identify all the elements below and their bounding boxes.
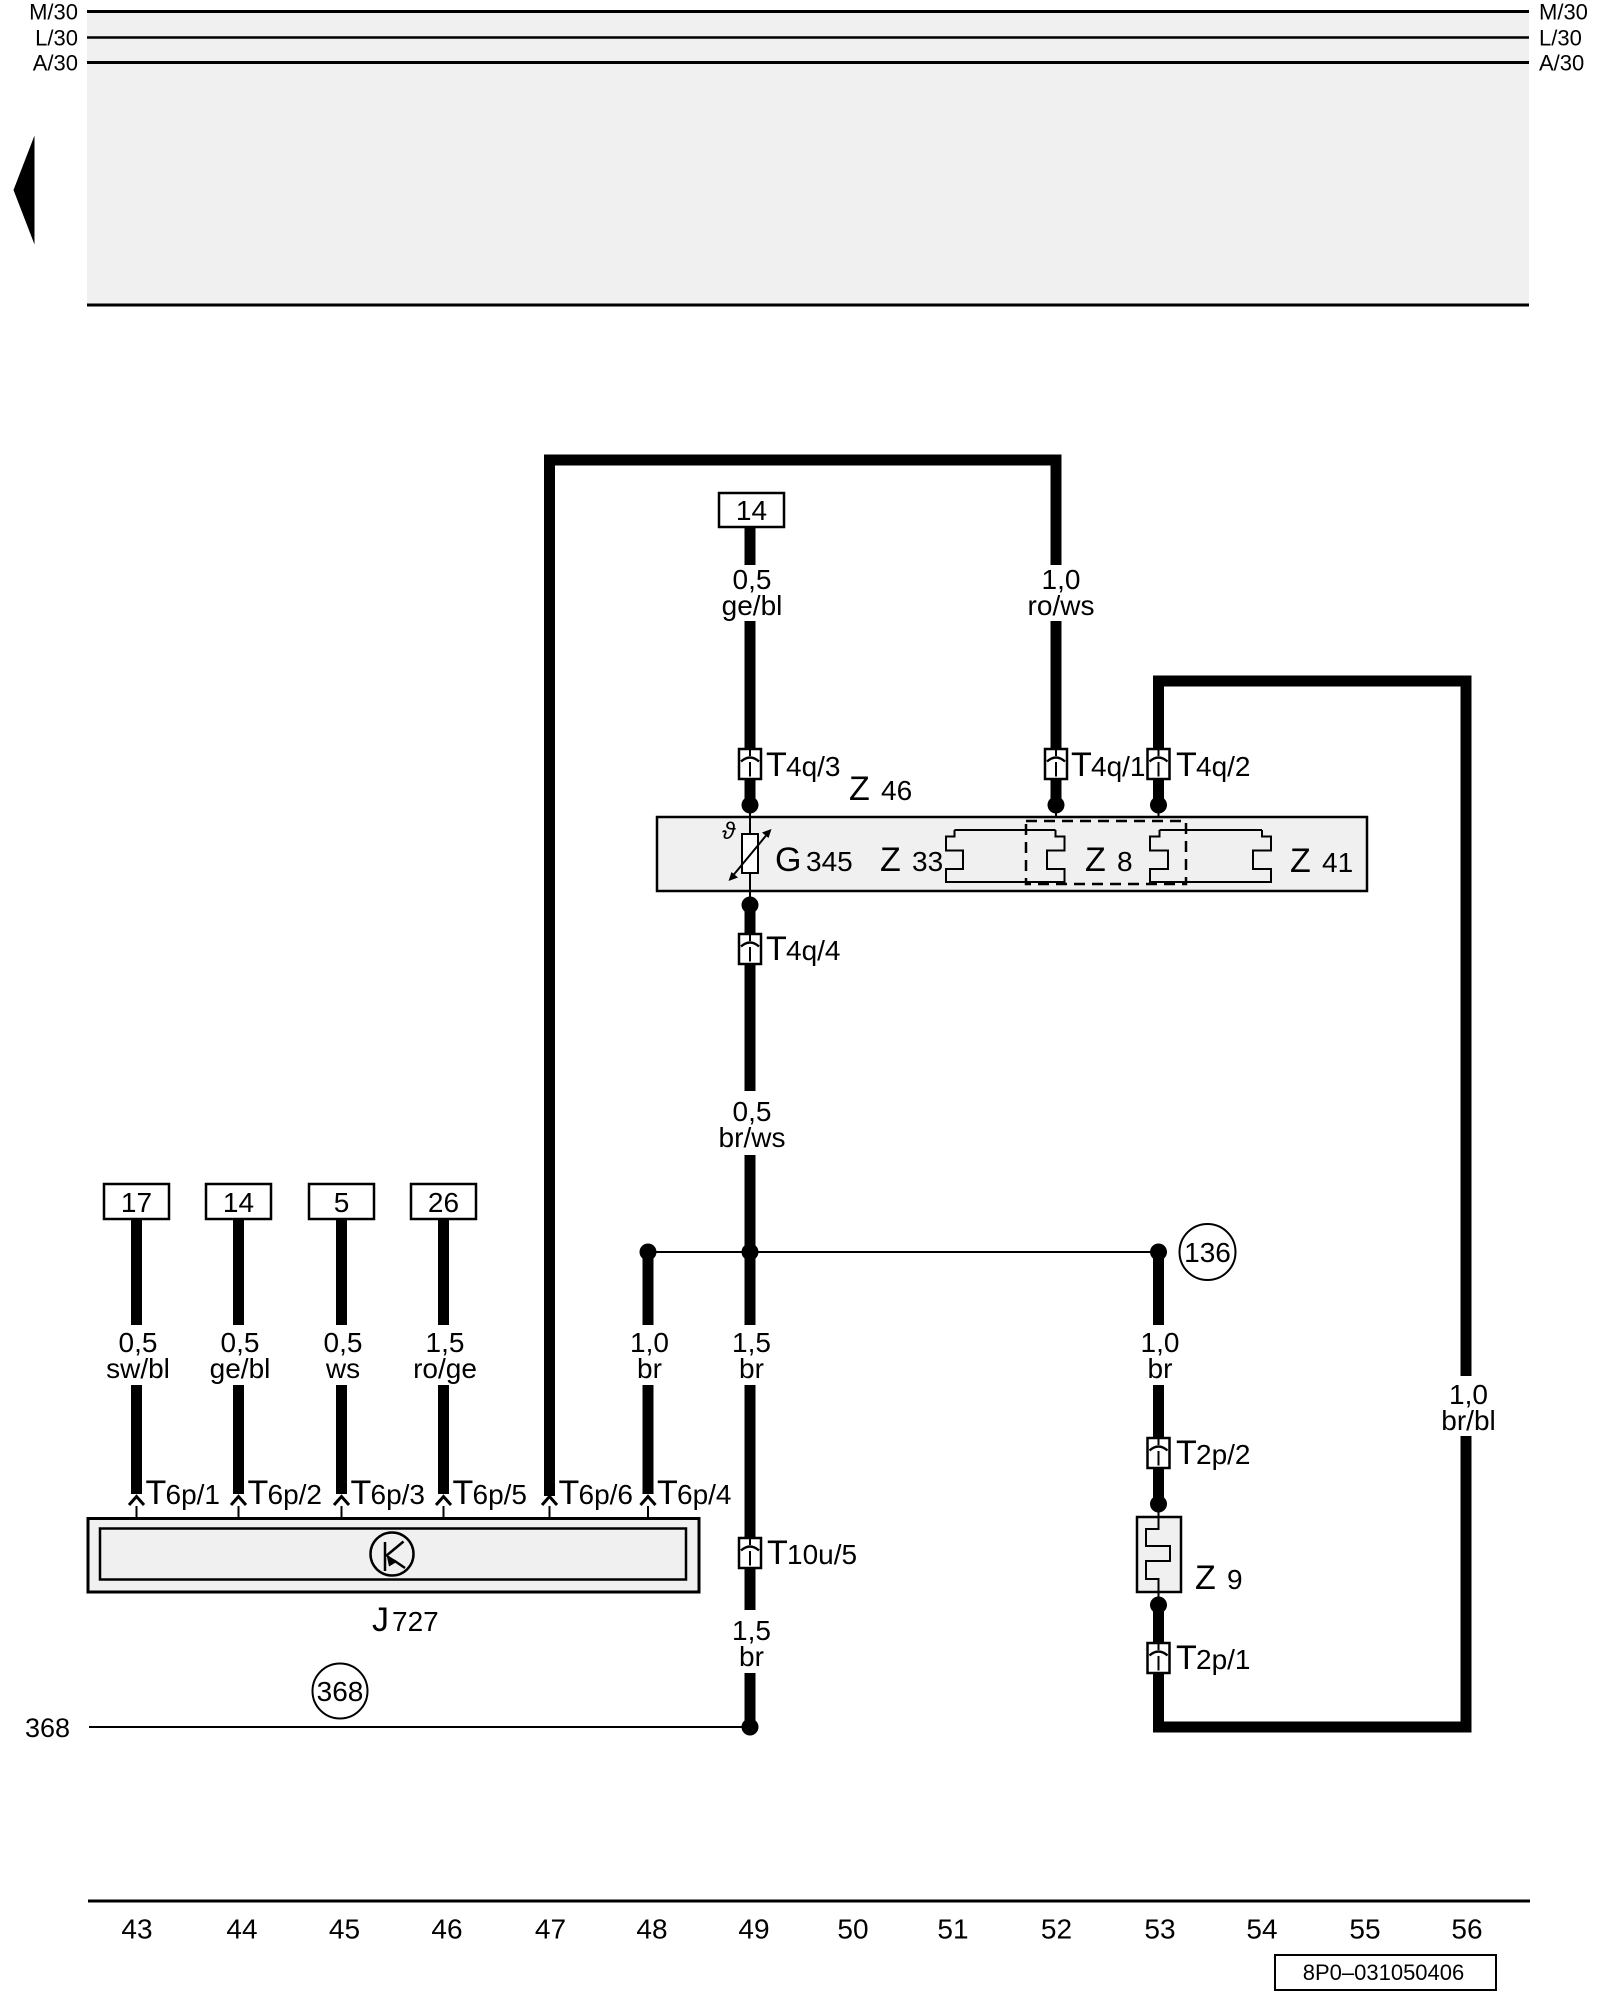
wire label 0,5 ge/bl (lower) [210, 1327, 271, 1384]
wire box5 down [336, 1219, 347, 1325]
pin arrow T6p/4 [641, 1497, 656, 1506]
wire label 1,0 br/bl [1441, 1379, 1495, 1436]
svg-text:sw/bl: sw/bl [106, 1353, 170, 1384]
svg-text:6p/6: 6p/6 [579, 1479, 634, 1510]
wire br to T6p/4 [643, 1385, 654, 1494]
wire T2p/1 down, across bottom and up right side [1159, 1436, 1467, 1727]
junction node br/ws branch [742, 1244, 759, 1261]
wire ro/ge to T6p/5 [438, 1385, 449, 1494]
label G345 [775, 841, 853, 879]
svg-text:5: 5 [334, 1187, 350, 1218]
svg-text:9: 9 [1227, 1564, 1243, 1595]
node above Z46 (Z33 feed) [1048, 797, 1065, 814]
label J727 [372, 1601, 439, 1639]
node below Z9 [1150, 1597, 1167, 1614]
terminal designation box 14 [206, 1184, 271, 1219]
thin lead into heater element Z33 [1055, 805, 1057, 830]
ground wire 368 (thin) [89, 1726, 750, 1728]
terminal designation box 5 [309, 1184, 374, 1219]
svg-text:ro/ge: ro/ge [413, 1353, 477, 1384]
svg-text:26: 26 [428, 1187, 459, 1218]
label T2p/1 [1176, 1639, 1251, 1677]
svg-text:Z: Z [1195, 1559, 1216, 1597]
svg-text:ro/ws: ro/ws [1028, 590, 1095, 621]
wire br/ws to junction [745, 1155, 756, 1252]
connector T4q/3 [739, 749, 761, 779]
svg-text:2p/1: 2p/1 [1196, 1644, 1251, 1675]
page arrow marker [14, 136, 35, 245]
svg-text:45: 45 [329, 1914, 360, 1945]
label Z41 [1290, 842, 1353, 880]
wire ro/ws to T4q/1 [1051, 621, 1062, 749]
label T4q/3 [766, 746, 841, 784]
dashed variant frame around Z8 [1026, 821, 1186, 884]
svg-text:Z: Z [1290, 842, 1311, 880]
svg-text:4q/1: 4q/1 [1091, 751, 1146, 782]
connector T10u/5 [739, 1538, 761, 1568]
ground marker circle 368 [313, 1664, 368, 1719]
label T2p/2 [1176, 1434, 1251, 1472]
svg-text:55: 55 [1349, 1914, 1380, 1945]
svg-text:br/ws: br/ws [719, 1122, 786, 1153]
svg-text:T: T [146, 1474, 167, 1512]
junction node T6p/4 branch [640, 1244, 657, 1261]
wire T4q/3 to node [745, 779, 756, 800]
svg-text:J: J [372, 1601, 389, 1639]
svg-text:Z: Z [1085, 841, 1106, 879]
svg-text:T: T [1176, 1639, 1197, 1677]
svg-text:14: 14 [736, 495, 767, 526]
svg-text:50: 50 [837, 1914, 868, 1945]
wire label 1,5 br (lower) [732, 1615, 771, 1672]
wire label 1,5 ro/ge [413, 1327, 477, 1384]
pin arrow T6p/3 [334, 1497, 349, 1506]
svg-text:8: 8 [1117, 846, 1133, 877]
pin arrow T6p/1 [129, 1497, 144, 1506]
label T6p/4 [657, 1474, 732, 1512]
wire ge/bl to T6p/2 [233, 1385, 244, 1494]
wire node to T2p/1 [1153, 1605, 1164, 1643]
svg-text:br/bl: br/bl [1441, 1405, 1495, 1436]
svg-text:G: G [775, 841, 801, 879]
wire br to T2p/2 [1153, 1385, 1164, 1438]
svg-text:47: 47 [535, 1914, 566, 1945]
wire T4q/2 to node [1153, 779, 1164, 800]
svg-text:Z: Z [849, 770, 870, 808]
svg-text:T: T [1176, 746, 1197, 784]
svg-text:T: T [453, 1474, 474, 1512]
svg-text:56: 56 [1451, 1914, 1482, 1945]
label T4q/2 [1176, 746, 1251, 784]
svg-text:14: 14 [223, 1187, 254, 1218]
svg-text:49: 49 [738, 1914, 769, 1945]
svg-text:17: 17 [121, 1187, 152, 1218]
wire node to T6p/4 [643, 1252, 654, 1325]
wire from box 14 down [745, 527, 756, 565]
J727 internal symbol (circle K) [371, 1533, 414, 1576]
wire box26 down [438, 1219, 449, 1325]
wire sw/bl to T6p/1 [131, 1385, 142, 1494]
svg-text:T: T [559, 1474, 580, 1512]
svg-text:41: 41 [1322, 847, 1353, 878]
svg-text:br: br [637, 1353, 662, 1384]
wire node to right branch down [1153, 1252, 1164, 1325]
svg-text:53: 53 [1144, 1914, 1175, 1945]
sensor G345 (temperature sensor, thermistor) [722, 818, 772, 881]
connector T4q/4 [739, 934, 761, 964]
svg-text:T: T [248, 1474, 269, 1512]
wire ge/bl to T4q/3 [745, 621, 756, 749]
svg-text:368: 368 [25, 1713, 70, 1743]
header panel bottom edge [87, 304, 1529, 307]
svg-text:T: T [1176, 1434, 1197, 1472]
label Z46 [849, 770, 912, 808]
label T6p/1 [146, 1474, 221, 1512]
svg-text:T: T [1071, 746, 1092, 784]
wire ws to T6p/3 [336, 1385, 347, 1494]
label T10u/5 [767, 1534, 857, 1572]
terminal designation box 26 [411, 1184, 476, 1219]
svg-text:br: br [1148, 1353, 1173, 1384]
label T6p/5 [453, 1474, 528, 1512]
ground node 368 [742, 1719, 759, 1736]
label T6p/2 [248, 1474, 323, 1512]
svg-text:6p/2: 6p/2 [268, 1479, 323, 1510]
svg-text:368: 368 [317, 1676, 364, 1707]
svg-text:8P0–031050406: 8P0–031050406 [1303, 1960, 1465, 1985]
top feed wire from T6p/6 column to T4q/1 column [550, 460, 1057, 1496]
connector T2p/2 [1148, 1438, 1170, 1468]
svg-text:T: T [767, 1534, 788, 1572]
wire label 0,5 br/ws [719, 1096, 786, 1153]
svg-text:10u/5: 10u/5 [787, 1539, 857, 1570]
svg-text:4q/3: 4q/3 [786, 751, 841, 782]
svg-text:T: T [766, 930, 787, 968]
current track scale line [88, 1900, 1530, 1903]
connector T2p/1 [1148, 1643, 1170, 1673]
svg-text:T: T [351, 1474, 372, 1512]
label Z33 [880, 841, 943, 879]
node marker 136 [1180, 1224, 1236, 1280]
header gray panel [87, 11, 1529, 305]
connector T4q/1 [1045, 749, 1067, 779]
wire label 0,5 ws [324, 1327, 363, 1384]
thin lead through Z46 top to G345 [749, 805, 751, 834]
svg-text:ϑ: ϑ [722, 818, 736, 845]
svg-text:345: 345 [806, 846, 853, 877]
svg-text:A/30: A/30 [33, 51, 78, 76]
node above Z9 [1150, 1496, 1167, 1513]
svg-text:51: 51 [937, 1914, 968, 1945]
thin lead G345 to node below Z46 [749, 873, 751, 905]
ground rail thin wire to node 136 [648, 1251, 1159, 1253]
label T4q/1 [1071, 746, 1146, 784]
svg-text:52: 52 [1041, 1914, 1072, 1945]
wire node to T4q/4 [745, 905, 756, 934]
svg-text:6p/5: 6p/5 [473, 1479, 528, 1510]
wire junction to label 1,5 br [745, 1252, 756, 1325]
wire br to ground point 368 [745, 1673, 756, 1727]
svg-text:6p/4: 6p/4 [677, 1479, 732, 1510]
pin arrow T6p/2 [231, 1497, 246, 1506]
wire T4q/1 to node [1051, 779, 1062, 800]
wire box14 down [233, 1219, 244, 1325]
wire label 1,0 ro/ws [1028, 564, 1095, 621]
terminal designation box 14 (top) [719, 493, 784, 527]
svg-text:M/30: M/30 [29, 0, 78, 25]
svg-text:br: br [739, 1641, 764, 1672]
svg-text:A/30: A/30 [1539, 51, 1584, 76]
svg-text:L/30: L/30 [1539, 26, 1582, 51]
label T6p/3 [351, 1474, 426, 1512]
svg-text:L/30: L/30 [35, 26, 78, 51]
svg-text:6p/1: 6p/1 [166, 1479, 221, 1510]
node above Z46 (G345 feed) [742, 797, 759, 814]
bus line L/30 [87, 36, 1529, 39]
wire label 1,5 br [732, 1327, 771, 1384]
wire T2p/2 to node [1153, 1468, 1164, 1500]
bus line M/30 [87, 10, 1529, 13]
diagram number plate [1275, 1955, 1496, 1990]
wire box17 down [131, 1219, 142, 1325]
svg-text:ge/bl: ge/bl [722, 590, 783, 621]
right loop wire: T4q/2 up, across and down right side [1159, 681, 1467, 1376]
label Z8 [1085, 841, 1133, 879]
junction node right branch [1150, 1244, 1167, 1261]
svg-text:43: 43 [121, 1914, 152, 1945]
wire T4q/4 down [745, 964, 756, 1091]
control unit J727 box [88, 1519, 699, 1593]
svg-text:44: 44 [226, 1914, 257, 1945]
wire label 0,5 ge/bl [722, 564, 783, 621]
wire br to T10u/5 [745, 1385, 756, 1538]
heater element Z9 (washer jet heater) [1137, 1504, 1181, 1605]
wire label 1,0 br (T6p/4) [630, 1327, 669, 1384]
bus line A/30 [87, 61, 1529, 64]
svg-text:Z: Z [880, 841, 901, 879]
wire label 0,5 sw/bl [106, 1327, 170, 1384]
svg-text:48: 48 [636, 1914, 667, 1945]
connector T4q/2 [1148, 749, 1170, 779]
svg-text:136: 136 [1184, 1237, 1231, 1268]
svg-text:br: br [739, 1353, 764, 1384]
svg-text:ws: ws [325, 1353, 360, 1384]
wire label 1,0 br (right) [1141, 1327, 1180, 1384]
svg-text:54: 54 [1246, 1914, 1277, 1945]
heater element Z8/Z41 body [1150, 830, 1271, 882]
component box Z46 (washer jet heater assembly) [657, 817, 1367, 891]
svg-text:2p/2: 2p/2 [1196, 1439, 1251, 1470]
thin lead into heater element Z8 [1158, 805, 1160, 830]
svg-text:727: 727 [392, 1606, 439, 1637]
svg-text:46: 46 [431, 1914, 462, 1945]
svg-text:T: T [766, 746, 787, 784]
svg-text:33: 33 [912, 846, 943, 877]
pin arrow T6p/6 [542, 1497, 557, 1506]
svg-text:ge/bl: ge/bl [210, 1353, 271, 1384]
terminal designation box 17 [104, 1184, 169, 1219]
wire T10u/5 down [745, 1568, 756, 1610]
svg-text:M/30: M/30 [1539, 0, 1588, 25]
node below Z46 [742, 897, 759, 914]
svg-text:4q/4: 4q/4 [786, 935, 841, 966]
node above Z46 (Z8 feed) [1150, 797, 1167, 814]
svg-text:T: T [657, 1474, 678, 1512]
heater element Z33 [946, 830, 1065, 882]
svg-text:46: 46 [881, 775, 912, 806]
svg-text:6p/3: 6p/3 [371, 1479, 426, 1510]
label T4q/4 [766, 930, 841, 968]
label T6p/6 [559, 1474, 634, 1512]
label Z9 [1195, 1559, 1243, 1597]
pin arrow T6p/5 [436, 1497, 451, 1506]
svg-text:4q/2: 4q/2 [1196, 751, 1251, 782]
